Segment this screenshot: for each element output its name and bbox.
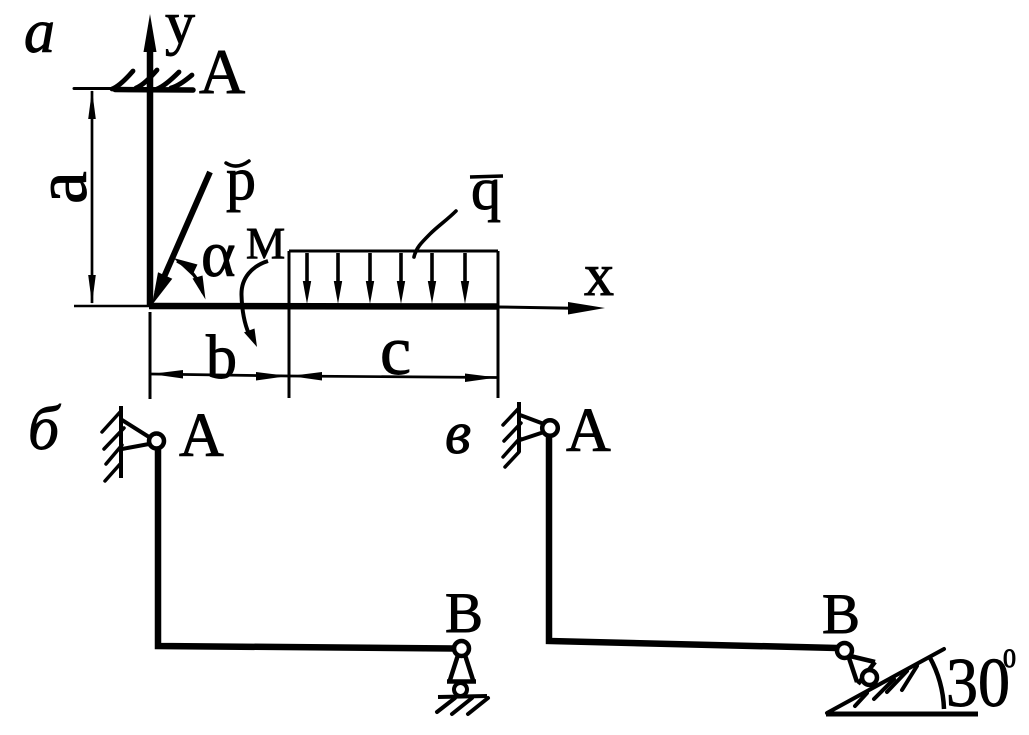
svg-text:b: b: [206, 324, 237, 392]
dimension line b: [151, 370, 289, 381]
roller circle (fig b): [454, 683, 467, 696]
force P: [152, 172, 210, 305]
svg-text:0: 0: [1003, 644, 1016, 673]
support A wall hatching (fig b): [102, 411, 124, 481]
support A wall (fig v): [517, 402, 521, 452]
load q leader line: [414, 211, 456, 257]
support A bracket triangle (fig v): [520, 415, 544, 440]
pin B circle (fig b): [454, 641, 469, 656]
inclined surface (fig v): [827, 649, 944, 713]
load q label: [470, 156, 503, 222]
frame member (fig b): [158, 448, 454, 649]
ground baseline (fig v): [826, 712, 978, 717]
incline hatching (fig v): [855, 666, 917, 706]
frame member (fig v): [549, 436, 837, 648]
pin A circle (fig v): [542, 420, 558, 436]
x-axis: [74, 302, 605, 315]
ground hatching (fig b): [437, 698, 488, 714]
dimension a line: [88, 90, 96, 304]
svg-text:p: p: [226, 146, 256, 212]
30 degree arc: [930, 657, 945, 709]
svg-text:30: 30: [946, 645, 1010, 722]
distributed load q outline: [289, 251, 498, 398]
svg-text:c: c: [380, 313, 411, 390]
dimension line c: [290, 372, 497, 382]
distributed load q arrows: [303, 253, 469, 304]
svg-text:B: B: [822, 583, 860, 646]
support A bracket triangle (fig b): [122, 420, 149, 449]
support A wall (fig b): [119, 406, 123, 478]
angle alpha arc: [174, 258, 206, 300]
y-axis: [144, 14, 157, 306]
svg-text:q: q: [471, 156, 501, 222]
svg-text:A: A: [199, 36, 245, 107]
pin A circle (fig b): [149, 434, 164, 449]
roller circle (fig v): [862, 670, 877, 685]
pin B circle (fig v): [837, 643, 852, 658]
support A wall hatching (fig v): [503, 408, 521, 467]
svg-text:a: a: [21, 171, 103, 204]
support A hatching: [112, 70, 192, 89]
origin extension line: [149, 312, 152, 399]
30 degree label: [946, 644, 1016, 722]
force P label: [226, 146, 256, 212]
svg-text:б: б: [28, 395, 61, 463]
moment M arrow: [241, 261, 268, 347]
svg-text:B: B: [445, 582, 483, 645]
svg-text:A: A: [566, 397, 611, 465]
svg-text:x: x: [584, 242, 614, 308]
svg-text:A: A: [179, 402, 224, 470]
svg-text:в: в: [445, 400, 471, 466]
svg-text:α: α: [201, 218, 236, 291]
roller rocker (fig b): [447, 655, 476, 682]
svg-text:y: y: [165, 0, 195, 56]
ground line (fig b): [438, 696, 487, 697]
support A wall line: [74, 89, 193, 91]
roller bracket (fig v): [849, 656, 875, 684]
svg-text:a: a: [24, 0, 55, 66]
